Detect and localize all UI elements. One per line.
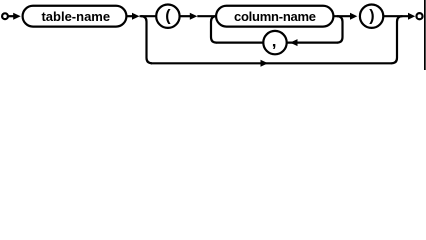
svg-text:column-name: column-name — [234, 9, 316, 24]
loop arrowhead (points left) — [290, 39, 298, 46]
arrowhead A5 — [408, 13, 415, 20]
end terminal — [416, 13, 422, 19]
right border line — [424, 0, 426, 70]
non-terminal table-name — [23, 6, 127, 27]
bypass rise right — [392, 16, 403, 63]
non-terminal column-name — [216, 6, 333, 27]
arrowhead A4 — [350, 13, 357, 20]
svg-text:table-name: table-name — [41, 9, 110, 24]
loop rise left — [211, 16, 217, 42]
svg-text:): ) — [369, 8, 374, 25]
arrowhead A3 — [190, 13, 198, 20]
wire paren to arrow — [180, 15, 191, 17]
wire paren-close to end — [383, 15, 408, 17]
wire column-name to arrow — [333, 15, 351, 17]
arrowhead A2 — [132, 13, 140, 20]
svg-text:,: , — [272, 32, 277, 51]
wire to column-name — [197, 15, 217, 17]
loop drop right — [337, 16, 343, 42]
terminal close-paren — [360, 5, 383, 28]
wire start to arrow — [8, 15, 14, 17]
terminal comma — [263, 31, 286, 54]
svg-text:(: ( — [165, 8, 171, 25]
terminal open-paren — [156, 5, 179, 28]
arrowhead A1 — [13, 13, 21, 20]
bypass arrowhead — [261, 60, 269, 67]
wire box to arrow — [126, 15, 132, 17]
loop bottom wire — [216, 41, 338, 43]
wire to open-paren — [140, 15, 158, 17]
bypass drop left — [141, 16, 152, 63]
start terminal — [2, 13, 8, 19]
bypass bottom wire — [151, 62, 392, 64]
